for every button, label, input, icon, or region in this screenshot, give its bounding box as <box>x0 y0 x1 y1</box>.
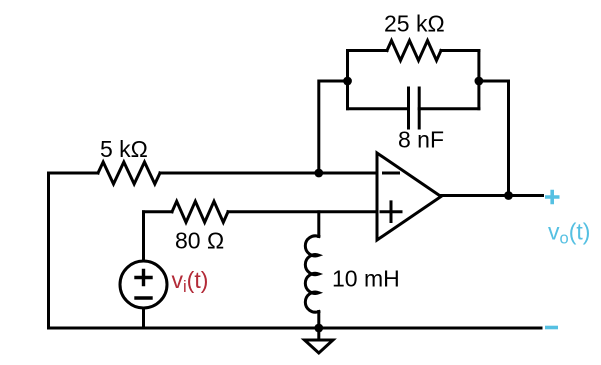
svg-text:10 mH: 10 mH <box>332 265 400 291</box>
inductor L1 10 mH <box>305 236 318 312</box>
wire inductor top drop <box>317 212 320 237</box>
wire source top drop <box>142 212 145 261</box>
node junction dot ground <box>314 324 323 333</box>
resistor R1 5 kOhm <box>98 162 160 184</box>
capacitor C1 plate left <box>407 88 410 128</box>
svg-text:8 nF: 8 nF <box>398 127 444 153</box>
wire feedback right to output <box>479 81 509 196</box>
wire left vertical <box>47 173 50 328</box>
wire output <box>441 194 543 197</box>
capacitor C1 plate right <box>418 88 421 128</box>
ground stem <box>317 328 320 340</box>
wire loop top rail right <box>441 49 479 52</box>
svg-text:vo(t): vo(t) <box>548 219 590 248</box>
voltage source minus sign <box>136 296 151 299</box>
node junction dot loop left <box>343 77 352 86</box>
wire noninverting input net <box>144 210 173 213</box>
resistor R2 25 kOhm <box>387 41 441 61</box>
output plus terminal <box>545 190 560 204</box>
node junction dot inverting input <box>314 169 323 178</box>
wire loop left vertical <box>346 51 349 109</box>
svg-text:25 kΩ: 25 kΩ <box>384 11 445 37</box>
wire inverting input net <box>49 172 99 175</box>
node junction dot output <box>504 191 513 200</box>
op-amp minus marker <box>384 172 399 175</box>
voltage source plus sign <box>136 271 151 285</box>
wire loop bottom rail left <box>348 107 409 110</box>
resistor R3 80 Ohm <box>172 201 228 222</box>
svg-text:vi(t): vi(t) <box>172 267 209 296</box>
ground symbol <box>305 340 334 353</box>
wire loop top rail left <box>348 49 388 52</box>
wire loop right vertical <box>477 51 480 109</box>
svg-text:80 Ω: 80 Ω <box>175 227 224 253</box>
wire source bottom <box>142 308 145 328</box>
svg-text:5 kΩ: 5 kΩ <box>100 136 148 162</box>
output minus terminal <box>545 326 558 330</box>
node junction dot loop right <box>475 77 484 86</box>
wire 5k to op-amp <box>160 172 377 175</box>
wire feedback left drop <box>319 81 348 173</box>
wire inductor bottom <box>317 312 320 329</box>
wire 80ohm to op-amp <box>228 210 377 213</box>
wire loop bottom rail right <box>419 107 479 110</box>
op-amp U1 triangle <box>377 153 441 240</box>
op-amp plus marker <box>381 202 401 222</box>
voltage source V1 circle <box>120 261 167 308</box>
wire bottom rail <box>49 327 542 330</box>
